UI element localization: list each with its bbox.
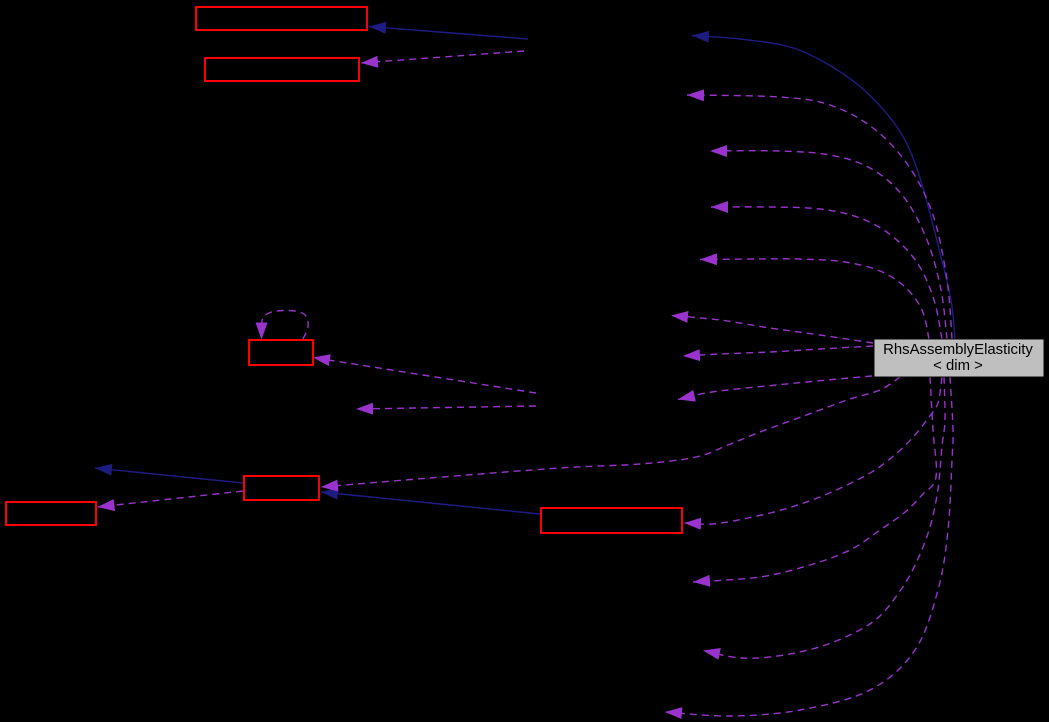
- edge blue into box1 from hidden node: [369, 27, 528, 40]
- edge purple dashed horizontal to hidden node y409: [356, 406, 536, 409]
- edge fan F4: [700, 259, 929, 339]
- edge fan F7: [678, 376, 872, 400]
- edge purple main to box4: [321, 377, 900, 487]
- svg-text:< dim >: < dim >: [933, 358, 983, 374]
- node box6 bottom red box: [541, 508, 682, 533]
- edge blue box6 into box4: [321, 492, 540, 514]
- edge fan F1: [687, 95, 952, 339]
- edge fan F10: [665, 377, 953, 716]
- edge purple main to box6: [684, 377, 942, 524]
- edge fan F6 left edge: [683, 346, 873, 356]
- node box3 self-loop red box: [249, 340, 313, 365]
- edge purple dashed into box2 from hidden node: [361, 51, 524, 63]
- node main RhsAssemblyElasticity: [874, 339, 1044, 377]
- svg-text:RhsAssemblyElasticity: RhsAssemblyElasticity: [883, 342, 1033, 358]
- edge purple dashed box4 to box5: [98, 491, 244, 507]
- edge self-loop on box3: [261, 310, 308, 339]
- node box5 bottom-left red box: [6, 502, 96, 525]
- node box1 top red box: [196, 7, 367, 30]
- edge purple dashed into box3 right side: [313, 358, 536, 394]
- edge fan F3: [711, 207, 942, 339]
- node box2 second red box: [205, 58, 359, 81]
- edge fan F9: [703, 377, 945, 658]
- edge fan F5 left edge: [671, 316, 873, 344]
- edge fan F2: [710, 151, 947, 339]
- edge blue arc main to hidden node top: [692, 36, 955, 340]
- node box4 middle red box: [244, 476, 319, 500]
- edge fan F8: [693, 377, 936, 582]
- edge blue from box4 to hidden node left: [95, 468, 243, 483]
